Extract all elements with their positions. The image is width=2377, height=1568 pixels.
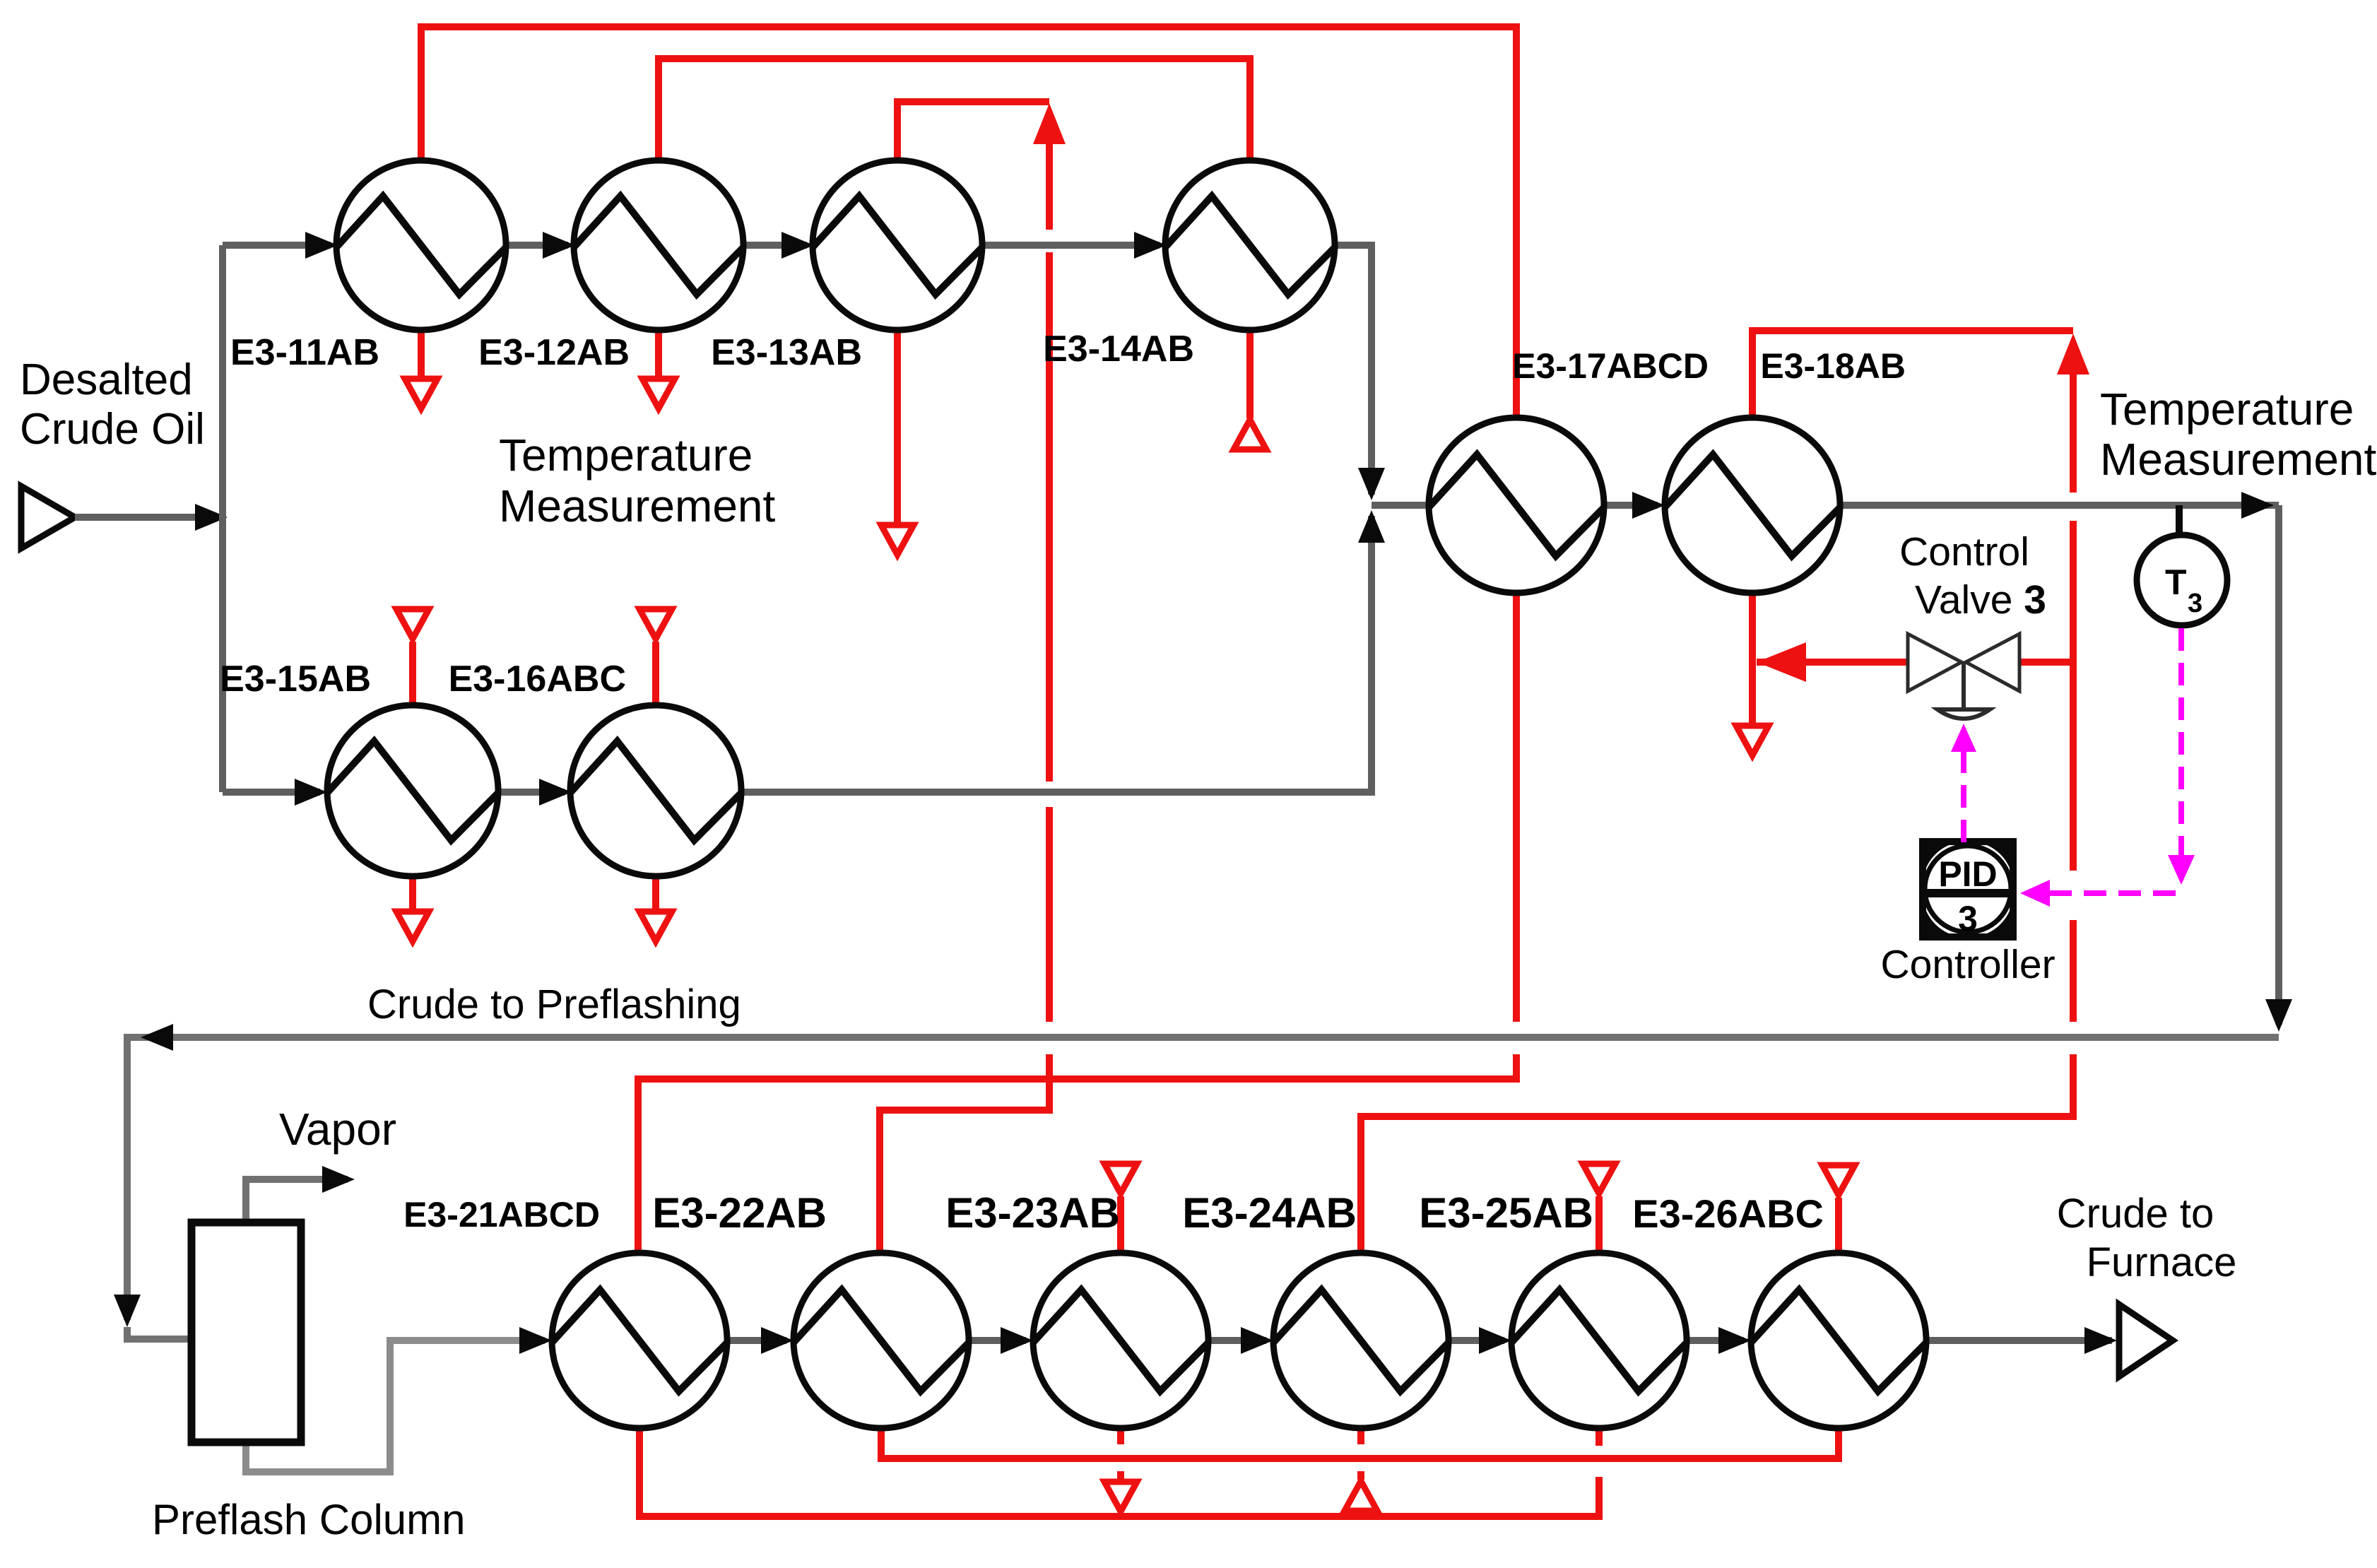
svg-text:Control: Control	[1899, 529, 2029, 574]
wire hot riser segment c	[2070, 521, 2077, 871]
wire E3-18 outlet east	[1840, 502, 2279, 509]
label Crude to Preflashing	[367, 982, 741, 1027]
svg-text:E3-23AB: E3-23AB	[945, 1189, 1120, 1237]
svg-text:E3-25AB: E3-25AB	[1419, 1189, 1593, 1237]
heat exchanger E3-15AB	[327, 705, 498, 876]
label Crude Oil	[20, 405, 205, 454]
wire E3-11 to E3-12	[506, 242, 568, 249]
svg-text:E3-26ABC: E3-26ABC	[1632, 1191, 1824, 1236]
wire E3-14 outlet to junction	[1335, 245, 1372, 495]
outlet arrow E3-11 drain	[405, 379, 437, 408]
label Desalted	[20, 355, 193, 404]
label Preflash Column	[152, 1496, 466, 1543]
arrow E3-16 inlet	[539, 779, 572, 806]
instrument T3	[2137, 535, 2227, 625]
wire return into preflash column	[127, 1327, 189, 1339]
svg-text:E3-15AB: E3-15AB	[220, 659, 371, 700]
svg-text:E3-21ABCD: E3-21ABCD	[403, 1195, 600, 1234]
svg-text:E3-24AB: E3-24AB	[1182, 1189, 1357, 1237]
wire E3-18 bottom drain	[1749, 593, 1756, 724]
wire column bottoms to E3-21	[246, 1340, 545, 1472]
heat exchanger E3-13AB	[813, 160, 982, 330]
wire E3-22 to E3-23	[969, 1337, 1026, 1344]
heat exchanger E3-17ABCD	[1429, 418, 1604, 593]
wire E3-12 to E3-13	[743, 242, 807, 249]
arrow return line down	[114, 1295, 141, 1327]
svg-text:Vapor: Vapor	[279, 1104, 396, 1155]
arrow signal into PID	[2020, 880, 2050, 907]
signal from T3 down	[2178, 628, 2184, 856]
wire E3-11 drain	[418, 330, 425, 377]
svg-text:E3-14AB: E3-14AB	[1043, 329, 1194, 370]
arrow up into mix junction	[1358, 510, 1385, 543]
svg-text:T: T	[2165, 562, 2187, 602]
arrow vapor	[322, 1166, 355, 1193]
svg-text:E3-18AB: E3-18AB	[1760, 346, 1906, 386]
wire E3-15 top feed	[409, 642, 416, 705]
wire hot crude down east side	[2275, 505, 2282, 1025]
wire hot E3-17 bottom down segment a	[1513, 593, 1520, 1022]
arrow E3-25 inlet	[1479, 1327, 1511, 1354]
arrow E3-12 inlet	[543, 232, 575, 259]
inlet arrow E3-25 top	[1583, 1164, 1615, 1193]
arrow E3-11 inlet	[305, 232, 338, 259]
arrow E3-21 inlet	[519, 1327, 552, 1354]
label E3-24AB	[1182, 1189, 1357, 1237]
svg-text:Measurement: Measurement	[499, 481, 776, 531]
wire E3-26 to furnace	[1926, 1337, 2112, 1344]
arrow down into mix junction	[1358, 468, 1385, 500]
wire hot riser from E3-22 segment d	[880, 1054, 1049, 1253]
wire junction to E3-17	[1372, 502, 1430, 509]
svg-text:E3-12AB: E3-12AB	[478, 332, 630, 373]
arrow signal to valve	[1951, 724, 1976, 752]
wire E3-12 drain	[655, 330, 662, 377]
signal valve actuator	[1961, 750, 1966, 843]
control valve CV3	[1908, 634, 2019, 719]
wire hot riser segment d	[2070, 367, 2077, 493]
wire E3-22 bottom to header	[881, 1428, 1839, 1458]
wire hot riser from E3-22 segment b	[1046, 252, 1053, 782]
arrow into E3-18 drain	[1757, 642, 1806, 682]
wire E3-21 bottom to lower header	[639, 1428, 1599, 1516]
wire E3-21 to E3-22	[727, 1337, 786, 1344]
label E3-17ABCD	[1512, 346, 1709, 386]
heat exchanger E3-14AB	[1165, 160, 1335, 330]
label Controller	[1880, 942, 2055, 987]
label E3-22AB	[652, 1189, 827, 1237]
outlet arrow E3-13 drain	[881, 525, 914, 555]
outlet symbol Crude to Furnace	[2119, 1304, 2173, 1377]
heat exchanger E3-26ABC	[1751, 1253, 1926, 1428]
wire E3-23 top feed	[1117, 1196, 1124, 1253]
svg-text:Temperature: Temperature	[2100, 384, 2354, 435]
wire E3-16 drain	[652, 876, 659, 910]
svg-text:E3-17ABCD: E3-17ABCD	[1512, 346, 1709, 386]
label E3-15AB	[220, 659, 371, 700]
wire hot riser from E3-22 segment c	[1046, 807, 1053, 1022]
label Vapor	[279, 1104, 396, 1155]
stem of temperature instrument T3	[2176, 505, 2183, 536]
label Furnace	[2087, 1239, 2237, 1285]
wire E3-23 drain upper	[1117, 1428, 1124, 1444]
arrow before corner	[2241, 492, 2274, 519]
wire E3-15 drain	[409, 876, 416, 910]
svg-text:Furnace: Furnace	[2087, 1239, 2237, 1285]
heat exchanger E3-16ABC	[570, 705, 741, 876]
arrow into junction	[195, 504, 228, 531]
wire E3-26 top feed	[1835, 1198, 1842, 1253]
wire E3-25 top feed	[1596, 1196, 1603, 1253]
arrow E3-23 inlet	[1001, 1327, 1033, 1354]
wire crude to E3-11	[223, 242, 331, 249]
wire control valve left branch	[1757, 659, 1908, 666]
arrow signal T3 down	[2168, 855, 2195, 885]
wire hot riser segment b	[2070, 920, 2077, 1022]
svg-text:3: 3	[1958, 899, 1978, 938]
wire E3-24 bottom inlet lower	[1357, 1471, 1364, 1480]
heat exchanger E3-22AB	[794, 1253, 969, 1428]
label E3-25AB	[1419, 1189, 1593, 1237]
svg-text:Preflash Column: Preflash Column	[152, 1496, 466, 1543]
heat exchanger E3-12AB	[574, 160, 743, 330]
label Temperature left	[499, 430, 753, 481]
wire hot E3-24 top to riser	[1361, 1054, 2073, 1253]
inlet arrow E3-26 top	[1822, 1165, 1855, 1195]
preflash column vessel	[191, 1222, 301, 1442]
label Temperature right	[2100, 384, 2354, 435]
label Crude to	[2057, 1191, 2214, 1237]
arrow into preflash return line	[2265, 999, 2292, 1032]
label E3-12AB	[478, 332, 630, 373]
outlet arrow E3-15 drain	[396, 912, 429, 941]
svg-text:3: 3	[2188, 589, 2202, 618]
inlet arrow E3-23 top	[1104, 1164, 1137, 1193]
label E3-16ABC	[449, 659, 626, 700]
wire E3-13 to E3-14	[982, 242, 1160, 249]
svg-text:Valve 3: Valve 3	[1915, 577, 2046, 623]
wire hot E3-14 top to E3-12 top	[659, 59, 1250, 160]
svg-text:E3-22AB: E3-22AB	[652, 1189, 827, 1237]
arrow E3-15 inlet	[295, 779, 327, 806]
wire lower header up to E3-25 bottom	[1596, 1428, 1603, 1446]
wire crude inlet header vertical	[219, 245, 226, 792]
arrow E3-26 inlet	[1718, 1327, 1751, 1354]
heat exchanger E3-18AB	[1665, 418, 1840, 593]
svg-text:Desalted: Desalted	[20, 355, 193, 404]
label Measurement right	[2100, 434, 2377, 485]
heat exchanger E3-11AB	[336, 160, 506, 330]
label E3-23AB	[945, 1189, 1120, 1237]
svg-text:Controller: Controller	[1880, 942, 2055, 987]
arrow E3-13 inlet	[781, 232, 814, 259]
wire E3-16 outlet to junction	[741, 516, 1372, 792]
label E3-21ABCD	[403, 1195, 600, 1234]
label E3-11AB	[230, 332, 379, 373]
wire hot header to E3-18 top	[1752, 331, 2073, 416]
arrow before outlet	[2084, 1327, 2117, 1354]
label Control	[1899, 529, 2029, 574]
outlet arrow E3-16 drain	[639, 912, 672, 941]
wire E3-14 drain	[1246, 330, 1254, 418]
heat exchanger E3-24AB	[1273, 1253, 1449, 1428]
signal horizontal to PID	[2049, 890, 2180, 896]
svg-text:PID: PID	[1938, 854, 1997, 894]
label Valve 3	[1915, 577, 2046, 623]
wire hot E3-17 bottom to E3-21 top	[638, 1054, 1516, 1253]
wire E3-15 to E3-16	[498, 789, 565, 796]
wire hot riser to E3-13 top	[897, 102, 1049, 160]
wire E3-24 bottom inlet upper	[1357, 1428, 1364, 1444]
arrow E3-24 inlet	[1241, 1327, 1273, 1354]
arrow E3-22 inlet	[761, 1327, 794, 1354]
wire hot riser from E3-22 segment a	[1046, 138, 1053, 230]
arrow E3-14 inlet	[1134, 232, 1167, 259]
outlet arrow E3-23 drain	[1104, 1482, 1137, 1511]
inlet arrow E3-16 top	[639, 609, 672, 639]
heat exchanger E3-21ABCD	[552, 1253, 727, 1428]
label E3-26ABC	[1632, 1191, 1824, 1236]
arrow hot up into E3-13 header	[1033, 103, 1066, 144]
inlet symbol Desalted Crude Oil	[21, 486, 220, 548]
heat exchanger E3-25AB	[1511, 1253, 1687, 1428]
controller PID 3	[1923, 842, 2013, 938]
svg-text:Temperature: Temperature	[499, 430, 753, 481]
wire E3-13 drain	[894, 330, 901, 524]
outlet arrow E3-18 drain	[1736, 726, 1769, 755]
arrow E3-18 inlet	[1632, 492, 1665, 519]
svg-text:E3-13AB: E3-13AB	[711, 332, 862, 373]
label Measurement left	[499, 481, 776, 531]
wire crude to E3-15	[223, 789, 320, 796]
inlet arrow E3-24 bottom	[1345, 1481, 1377, 1511]
label E3-18AB	[1760, 346, 1906, 386]
svg-text:E3-11AB: E3-11AB	[230, 332, 379, 373]
wire E3-25 to E3-26	[1687, 1337, 1744, 1344]
wire E3-24 to E3-25	[1449, 1337, 1504, 1344]
svg-text:Crude Oil: Crude Oil	[20, 405, 205, 454]
wire E3-23 drain lower	[1117, 1471, 1124, 1480]
wire hot E3-17 top to E3-11 top	[421, 27, 1516, 416]
svg-text:E3-16ABC: E3-16ABC	[449, 659, 626, 700]
wire control valve right branch	[2018, 659, 2073, 666]
label E3-14AB	[1043, 329, 1194, 370]
svg-text:Crude to: Crude to	[2057, 1191, 2214, 1237]
svg-text:Measurement: Measurement	[2100, 434, 2377, 485]
wire E3-23 to E3-24	[1208, 1337, 1266, 1344]
wire Crude to Preflashing return	[127, 1037, 2279, 1320]
wire E3-16 top feed	[652, 642, 659, 705]
heat exchanger E3-23AB	[1033, 1253, 1208, 1428]
arrow hot up to E3-18 header	[2057, 334, 2089, 375]
inlet arrow E3-15 top	[396, 609, 429, 639]
inlet arrow E3-14 bottom	[1234, 420, 1266, 449]
svg-text:Crude to Preflashing: Crude to Preflashing	[367, 982, 741, 1027]
wire vapor from column top	[246, 1179, 348, 1222]
label E3-13AB	[711, 332, 862, 373]
wire E3-17 to E3-18	[1604, 502, 1658, 509]
outlet arrow E3-12 drain	[642, 379, 675, 408]
arrow return line west	[141, 1024, 173, 1051]
